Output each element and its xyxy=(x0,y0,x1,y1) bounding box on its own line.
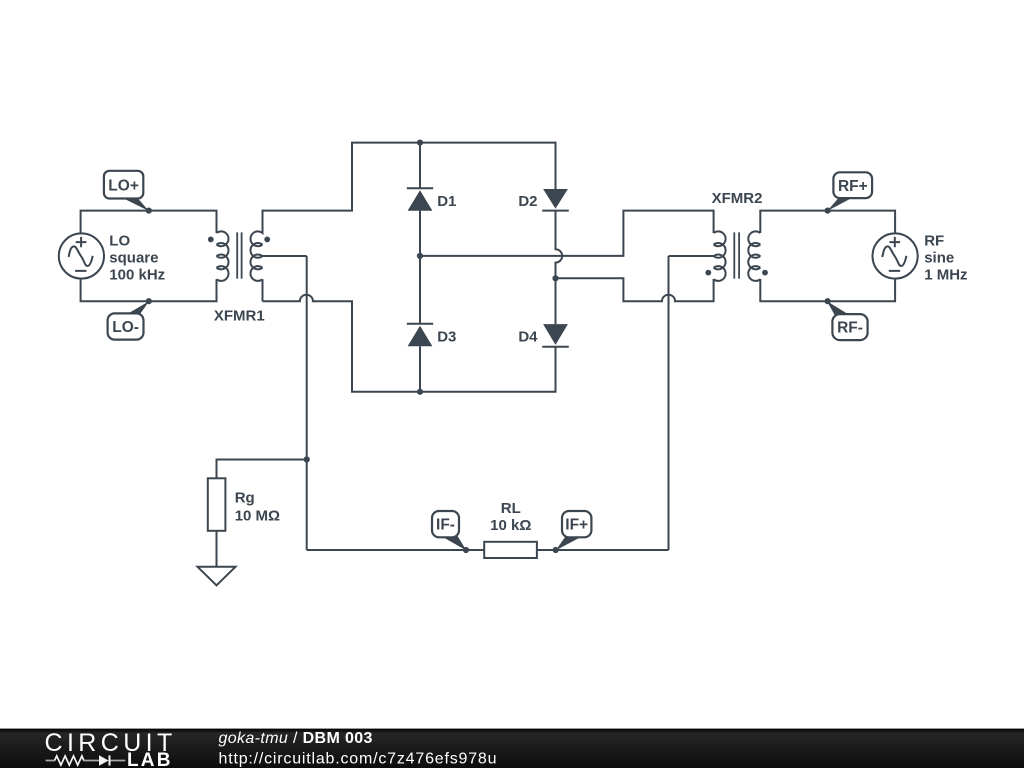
svg-text:LO: LO xyxy=(109,232,130,249)
svg-text:1 MHz: 1 MHz xyxy=(924,267,967,284)
svg-text:goka-tmu / DBM 003: goka-tmu / DBM 003 xyxy=(219,730,373,747)
svg-text:sine: sine xyxy=(924,250,954,267)
svg-text:IF-: IF- xyxy=(436,517,455,534)
svg-text:LO+: LO+ xyxy=(108,177,139,194)
svg-text:10 MΩ: 10 MΩ xyxy=(235,508,280,525)
svg-text:XFMR2: XFMR2 xyxy=(712,190,763,207)
svg-text:RL: RL xyxy=(501,500,521,517)
svg-text:LO-: LO- xyxy=(112,319,139,336)
svg-text:RF-: RF- xyxy=(837,320,863,337)
svg-text:RF: RF xyxy=(924,232,944,249)
svg-text:XFMR1: XFMR1 xyxy=(214,307,265,324)
svg-text:http://circuitlab.com/c7z476ef: http://circuitlab.com/c7z476efs978u xyxy=(219,750,498,767)
svg-text:IF+: IF+ xyxy=(565,517,588,534)
svg-text:100 kHz: 100 kHz xyxy=(109,267,165,284)
svg-text:D1: D1 xyxy=(437,193,456,210)
svg-text:10 kΩ: 10 kΩ xyxy=(490,517,531,534)
svg-text:RF+: RF+ xyxy=(838,178,868,195)
svg-text:LAB: LAB xyxy=(127,750,173,768)
svg-text:D4: D4 xyxy=(518,328,538,345)
svg-text:Rg: Rg xyxy=(235,489,255,506)
svg-text:D3: D3 xyxy=(437,328,456,345)
svg-text:D2: D2 xyxy=(518,193,537,210)
svg-text:square: square xyxy=(109,250,158,267)
